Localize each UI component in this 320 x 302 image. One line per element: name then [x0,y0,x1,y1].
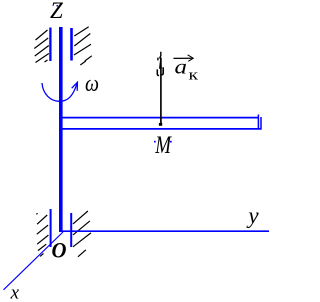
rod end cap outer line [260,117,262,130]
y axis [63,230,270,232]
bottom bearing right line [70,213,72,247]
arrowhead right hook [161,67,163,74]
omega arc arrowhead [72,82,78,91]
arrowhead narrow triangle [159,52,162,69]
svg-text:ω: ω [85,71,99,96]
top bearing left line [49,28,51,62]
coriolis acceleration arrow shaft at M [160,58,162,126]
bottom bearing left line [50,209,52,247]
svg-text:x: x [10,282,20,302]
svg-text:y: y [246,203,259,228]
horizontal rod top line [62,117,259,119]
svg-text:к: к [189,68,199,84]
shaft (vertical rotating axle) [59,27,63,232]
rod end cap inner line (with tick above) [257,115,259,130]
a_k vector overline arrow [174,57,192,59]
x axis (diagonal) [4,232,64,290]
top bearing right hatch [74,27,92,65]
top bearing right line [70,28,73,61]
arrowhead tip stroke [160,52,161,59]
bottom bearing right hatch [73,211,91,257]
top bearing left hatch [34,30,49,63]
bottom bearing left hatch [36,213,48,256]
omega rotation arc [42,83,77,102]
svg-text:a: a [175,56,188,78]
arrowhead left hook [157,69,159,75]
svg-text:Z: Z [50,0,63,23]
arrowhead left tick [157,58,159,61]
arrow base blob on rod [159,123,162,126]
svg-text:M: M [154,132,171,159]
horizontal rod bottom line [62,128,262,130]
stray blue dots beside M [154,141,156,143]
stray blue dot near Z [57,5,59,7]
svg-text:O: O [52,238,67,263]
